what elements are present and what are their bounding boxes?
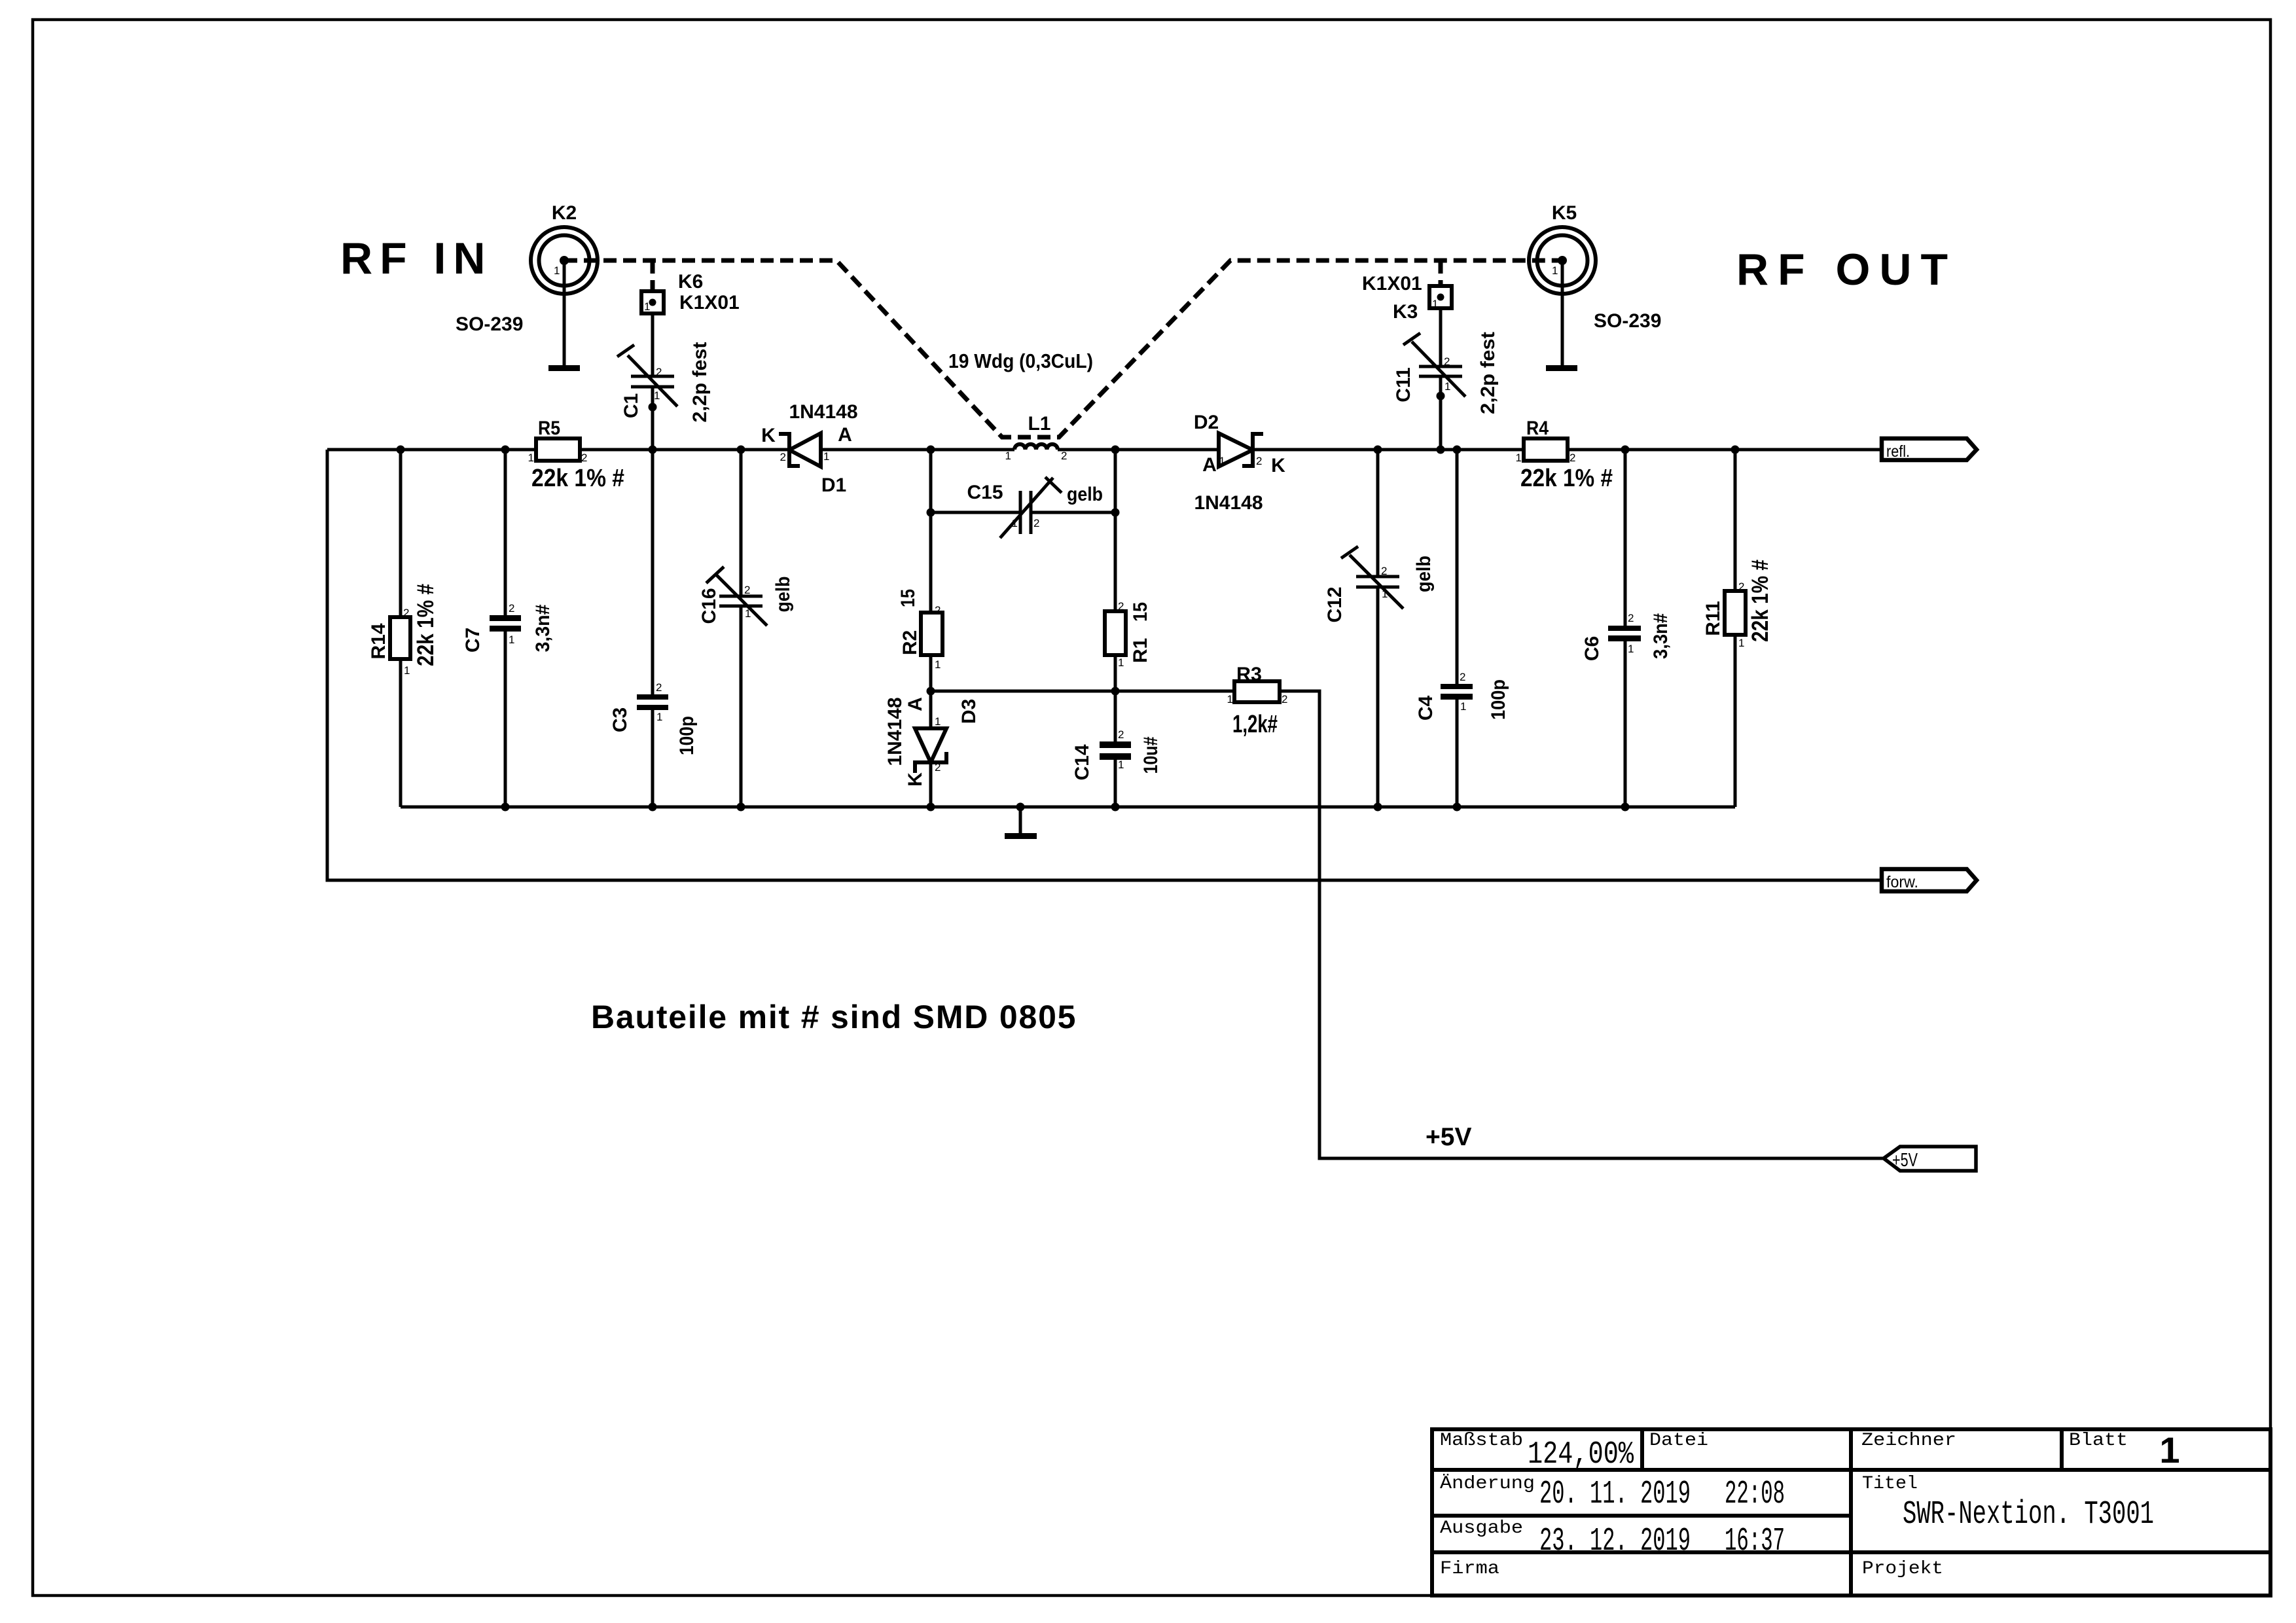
svg-text:2: 2	[744, 584, 750, 596]
svg-text:2: 2	[1061, 450, 1067, 462]
svg-text:2: 2	[1118, 600, 1124, 613]
svg-text:1: 1	[1118, 656, 1124, 669]
svg-text:Änderung: Änderung	[1440, 1474, 1535, 1494]
svg-text:R1: R1	[1130, 638, 1151, 663]
svg-text:2: 2	[656, 681, 662, 694]
svg-text:Zeichner: Zeichner	[1861, 1431, 1956, 1451]
svg-text:C11: C11	[1393, 367, 1414, 402]
svg-text:2: 2	[509, 602, 514, 615]
svg-text:R14: R14	[368, 623, 389, 659]
svg-text:K: K	[761, 425, 776, 446]
svg-text:1: 1	[1516, 452, 1522, 464]
svg-text:1N4148: 1N4148	[1194, 492, 1263, 514]
svg-text:22:08: 22:08	[1725, 1476, 1785, 1513]
svg-text:2: 2	[403, 607, 409, 619]
svg-text:gelb: gelb	[1413, 556, 1435, 592]
svg-text:Ausgabe: Ausgabe	[1440, 1518, 1523, 1539]
svg-text:K3: K3	[1393, 301, 1418, 323]
svg-text:124,00%: 124,00%	[1528, 1437, 1634, 1472]
svg-text:Blatt: Blatt	[2069, 1431, 2128, 1451]
svg-text:1: 1	[1012, 517, 1018, 529]
svg-text:2: 2	[1460, 671, 1465, 683]
svg-text:C12: C12	[1324, 586, 1346, 622]
svg-text:22k 1% #: 22k 1% #	[413, 584, 439, 666]
svg-text:C4: C4	[1415, 696, 1437, 721]
svg-text:1,2k#: 1,2k#	[1232, 711, 1278, 738]
svg-text:1: 1	[509, 633, 514, 646]
svg-text:2,2p fest: 2,2p fest	[1477, 332, 1499, 414]
svg-text:R4: R4	[1526, 418, 1549, 439]
svg-text:1: 1	[823, 450, 829, 463]
svg-text:1: 1	[1738, 637, 1744, 649]
svg-text:3,3n#: 3,3n#	[532, 604, 554, 652]
svg-text:R5: R5	[538, 418, 560, 439]
svg-text:22k 1% #: 22k 1% #	[1748, 560, 1773, 642]
svg-text:+5V: +5V	[1426, 1123, 1471, 1151]
svg-text:2: 2	[581, 452, 587, 464]
svg-text:15: 15	[1130, 602, 1151, 622]
svg-text:R2: R2	[899, 630, 921, 655]
svg-text:1: 1	[1432, 298, 1438, 310]
svg-text:1: 1	[1219, 455, 1225, 467]
svg-text:Projekt: Projekt	[1862, 1559, 1943, 1579]
svg-text:1: 1	[1227, 693, 1233, 705]
svg-text:forw.: forw.	[1886, 873, 1918, 891]
svg-text:gelb: gelb	[772, 577, 794, 613]
svg-text:D3: D3	[958, 699, 980, 724]
svg-text:2: 2	[1282, 693, 1287, 705]
svg-text:K6: K6	[678, 271, 703, 293]
svg-text:C6: C6	[1581, 636, 1603, 661]
svg-text:RF IN: RF IN	[340, 234, 493, 283]
svg-text:Firma: Firma	[1440, 1559, 1499, 1579]
svg-text:Maßstab: Maßstab	[1440, 1431, 1523, 1451]
svg-text:20. 11. 2019: 20. 11. 2019	[1539, 1476, 1691, 1513]
svg-text:22k 1% #: 22k 1% #	[1520, 465, 1613, 492]
svg-text:100p: 100p	[1488, 679, 1509, 720]
svg-text:SO-239: SO-239	[456, 313, 523, 335]
svg-text:1N4148: 1N4148	[884, 697, 906, 766]
svg-text:2: 2	[1256, 455, 1262, 467]
svg-text:K1X01: K1X01	[679, 292, 740, 313]
svg-text:K5: K5	[1552, 202, 1577, 224]
svg-text:1: 1	[1628, 643, 1634, 655]
svg-text:2: 2	[1570, 452, 1575, 464]
svg-text:1: 1	[654, 389, 660, 402]
svg-text:SO-239: SO-239	[1594, 310, 1661, 332]
svg-text:K: K	[1271, 455, 1285, 476]
svg-text:2: 2	[935, 761, 941, 774]
svg-text:1: 1	[1005, 450, 1011, 462]
svg-text:D1: D1	[821, 474, 846, 496]
svg-text:K2: K2	[552, 202, 577, 224]
svg-text:2: 2	[1738, 580, 1744, 593]
svg-text:1: 1	[935, 715, 941, 728]
svg-text:+5V: +5V	[1892, 1150, 1918, 1171]
svg-text:refl.: refl.	[1886, 442, 1910, 461]
svg-text:10u#: 10u#	[1140, 736, 1162, 774]
svg-text:1: 1	[644, 300, 650, 313]
svg-text:1: 1	[1460, 700, 1466, 713]
svg-text:R3: R3	[1236, 664, 1262, 685]
svg-text:A: A	[838, 424, 852, 446]
svg-text:3,3n#: 3,3n#	[1650, 613, 1672, 659]
svg-text:22k 1% #: 22k 1% #	[531, 465, 624, 492]
svg-text:C15: C15	[967, 482, 1003, 503]
svg-text:2: 2	[1033, 517, 1039, 529]
svg-text:2: 2	[780, 451, 786, 463]
svg-text:1: 1	[656, 711, 662, 723]
svg-text:A: A	[1202, 454, 1217, 476]
svg-text:R11: R11	[1702, 601, 1724, 635]
svg-text:19 Wdg (0,3CuL): 19 Wdg (0,3CuL)	[948, 349, 1093, 372]
svg-text:2: 2	[935, 604, 941, 616]
svg-text:23. 12. 2019: 23. 12. 2019	[1539, 1523, 1691, 1560]
svg-text:1: 1	[404, 664, 410, 677]
svg-text:1: 1	[2159, 1429, 2179, 1471]
svg-text:C16: C16	[698, 588, 720, 624]
svg-text:SWR-Nextion. T3001: SWR-Nextion. T3001	[1903, 1496, 2154, 1533]
svg-text:1: 1	[1552, 264, 1558, 277]
svg-text:RF OUT: RF OUT	[1736, 245, 1957, 294]
svg-text:D2: D2	[1194, 412, 1219, 433]
svg-text:2: 2	[1628, 612, 1634, 624]
svg-text:1: 1	[745, 607, 751, 620]
svg-text:Datei: Datei	[1649, 1431, 1708, 1451]
svg-text:2: 2	[656, 366, 662, 378]
svg-text:1N4148: 1N4148	[789, 401, 857, 423]
svg-text:1: 1	[1382, 588, 1388, 600]
svg-text:2,2p fest: 2,2p fest	[689, 342, 711, 422]
svg-text:1: 1	[554, 264, 560, 277]
svg-text:1: 1	[1118, 758, 1124, 771]
svg-text:Titel: Titel	[1862, 1474, 1918, 1494]
svg-text:K: K	[905, 772, 926, 787]
svg-text:1: 1	[1444, 380, 1450, 393]
svg-text:100p: 100p	[676, 716, 698, 755]
svg-text:1: 1	[935, 658, 941, 671]
svg-text:C7: C7	[462, 628, 484, 652]
svg-text:C14: C14	[1071, 744, 1093, 780]
svg-text:Bauteile mit # sind SMD 0805: Bauteile mit # sind SMD 0805	[591, 999, 1077, 1035]
svg-text:C3: C3	[609, 707, 631, 732]
svg-text:1: 1	[528, 452, 534, 464]
svg-text:16:37: 16:37	[1725, 1523, 1785, 1560]
svg-text:15: 15	[897, 589, 919, 607]
svg-text:2: 2	[1381, 565, 1387, 577]
svg-text:L1: L1	[1028, 413, 1050, 435]
svg-text:K1X01: K1X01	[1362, 273, 1422, 294]
svg-text:2: 2	[1118, 728, 1124, 741]
svg-text:2: 2	[1444, 355, 1450, 368]
svg-text:C1: C1	[620, 393, 642, 418]
svg-text:gelb: gelb	[1067, 484, 1103, 505]
svg-text:A: A	[905, 697, 926, 711]
